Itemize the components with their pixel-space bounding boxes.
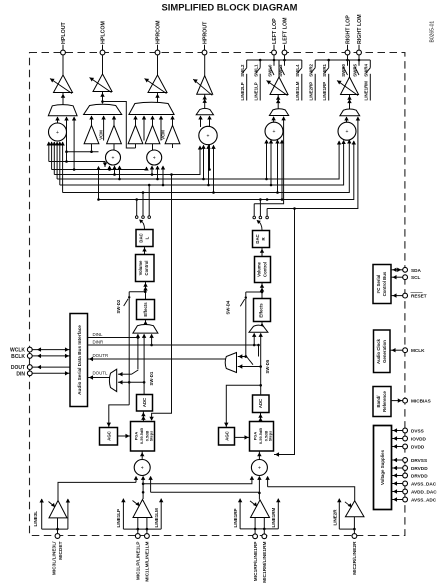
switch SWR5 <box>358 60 360 66</box>
svg-text:MIC2R/LINE2R: MIC2R/LINE2R <box>352 541 358 575</box>
svg-text:+: + <box>207 133 210 139</box>
summing node A (HPL) <box>49 123 67 141</box>
svg-text:PGA: PGA <box>252 432 257 441</box>
wire MIC3L input leads <box>42 528 68 530</box>
svg-text:SWR2: SWR2 <box>309 63 314 76</box>
wire MIC2R to mixer R <box>268 487 355 501</box>
pin MIC2R/LINE2R <box>352 534 357 539</box>
wire DVSS <box>392 430 403 432</box>
pin DVSS <box>403 428 408 433</box>
buffer VCM 5 <box>165 125 180 144</box>
svg-text:AVSS_DAC: AVSS_DAC <box>411 481 437 486</box>
svg-text:RIGHT LOM: RIGHT LOM <box>357 14 363 44</box>
svg-text:B0265-01: B0265-01 <box>430 21 436 43</box>
volume control R <box>255 257 271 283</box>
wire circle E inputs <box>266 140 268 179</box>
wire L amp to mixer R <box>143 482 252 483</box>
svg-text:Control: Control <box>144 261 149 276</box>
wire mixer R inputs <box>251 477 253 483</box>
AGC R <box>219 428 235 446</box>
svg-text:SWR5: SWR5 <box>352 63 357 76</box>
svg-text:DOUT: DOUT <box>11 365 25 371</box>
wire amp input from mux HPLOUT <box>62 93 64 107</box>
wire amp input from mux HPROUT <box>204 94 206 110</box>
wire SW-D4 to ADC mux feed <box>245 298 247 357</box>
svg-text:Effects: Effects <box>143 302 148 317</box>
svg-text:LEFT LOM: LEFT LOM <box>282 17 288 44</box>
pin AVSS_DAC <box>403 481 408 486</box>
svg-text:LINE1RP: LINE1RP <box>322 82 327 101</box>
wire bus line 1 <box>49 162 105 168</box>
pin MIC1LP/LINE1LP <box>135 534 140 539</box>
wire bus line 4 <box>57 141 339 179</box>
svg-text:SWL2: SWL2 <box>240 64 245 77</box>
wire effects input mux R to effects R <box>261 322 263 326</box>
audio clock generation block <box>374 330 391 373</box>
wire amp input from mux HPLCOM <box>102 92 104 104</box>
svg-text:0-59.5dB: 0-59.5dB <box>139 428 144 444</box>
wire R amp to mixer L <box>151 491 260 493</box>
svg-text:HPROUT: HPROUT <box>202 21 208 44</box>
effects L <box>137 300 155 320</box>
wire LEFT_LO amp output to bus <box>278 60 280 77</box>
svg-text:SWL4: SWL4 <box>295 64 300 77</box>
buffer VCM 2 <box>107 125 122 144</box>
wire mux DOUTR input 1 <box>238 356 247 358</box>
ADC R <box>253 395 270 413</box>
svg-text:SW-D1: SW-D1 <box>149 371 154 385</box>
svg-text:SWR4: SWR4 <box>364 63 369 76</box>
wire HPROUT terminal to amp <box>204 55 206 75</box>
svg-text:Effects: Effects <box>259 303 264 318</box>
input amp MIC2R/LINE2R <box>345 501 364 517</box>
svg-text:HPRCOM: HPRCOM <box>155 20 161 44</box>
svg-text:MICDET: MICDET <box>58 541 64 559</box>
wire WCLK <box>33 349 71 351</box>
input mixer node L <box>134 460 150 476</box>
input mixer node R <box>251 460 267 476</box>
svg-text:AGC: AGC <box>225 431 230 441</box>
svg-text:+: + <box>346 129 349 135</box>
pin DRVSS <box>403 458 408 463</box>
pin MCLK <box>403 348 408 353</box>
wire MIC1L input leads <box>123 528 161 530</box>
svg-text:AVSS_ADC: AVSS_ADC <box>411 497 437 502</box>
svg-text:LINE1RM: LINE1RM <box>364 81 369 101</box>
switch DAC R output select <box>253 216 256 219</box>
PGA R <box>250 422 274 452</box>
pin MICBIAS <box>403 398 408 403</box>
pin SDA <box>403 267 408 272</box>
svg-text:DAC: DAC <box>138 233 143 242</box>
wire bus line 5 <box>60 141 344 186</box>
svg-text:Volume: Volume <box>138 260 143 275</box>
svg-text:ADC: ADC <box>142 398 147 407</box>
wire mux L input DINR tap <box>151 334 153 345</box>
wire effects L to volume control L <box>145 282 147 300</box>
svg-text:MIC3L/LINE3L/: MIC3L/LINE3L/ <box>52 541 58 575</box>
wire HPRCOM terminal to amp <box>157 55 159 75</box>
svg-text:+: + <box>112 155 115 161</box>
svg-text:Volume: Volume <box>257 261 262 276</box>
wire mux DOUTR input 2 <box>238 366 261 368</box>
svg-text:SWL0: SWL0 <box>267 64 272 77</box>
svg-text:RIGHT LOP: RIGHT LOP <box>345 15 351 44</box>
svg-text:+: + <box>153 155 156 161</box>
pin DRVDD <box>403 466 408 471</box>
svg-text:LEFT LOP: LEFT LOP <box>272 18 278 44</box>
svg-text:MIC1RM/LINE1RM: MIC1RM/LINE1RM <box>262 542 268 583</box>
wire amp input from mux HPRCOM <box>157 93 159 106</box>
I2C serial control bus block <box>373 265 391 304</box>
wire RIGHT_LO amp output to bus <box>349 60 351 77</box>
summing node B (DAC L sum) <box>106 150 121 165</box>
wire DAC L routing contacts stems <box>136 200 138 216</box>
svg-text:DAC: DAC <box>255 234 260 243</box>
svg-text:SW-D2: SW-D2 <box>116 299 121 313</box>
wire RESET <box>391 295 403 297</box>
pin RESET <box>403 293 408 298</box>
wire input mixer L to PGA L <box>141 451 143 459</box>
wire PGA L to ADC L <box>142 411 144 421</box>
effects R <box>254 299 271 322</box>
wire DRVSS <box>392 459 403 461</box>
svg-text:MICBIAS: MICBIAS <box>411 399 431 404</box>
wire mux HPLOUT inputs <box>57 117 59 124</box>
svg-text:DRVDD: DRVDD <box>411 473 428 478</box>
wire SDA <box>391 269 403 271</box>
wire MICBIAS <box>391 400 403 402</box>
wire LEFT_LO output bus <box>247 59 302 61</box>
switch SWL2 / node LINE2LP <box>246 60 248 68</box>
wire AGC L input tap <box>109 405 129 427</box>
summing node E (LEFT_LO) <box>265 122 283 140</box>
pin MIC1RP/LINE1RP <box>253 534 258 539</box>
output mux HPROUT <box>196 108 213 114</box>
output driver amp HPLCOM <box>93 74 112 92</box>
wire IOVDD <box>392 438 403 440</box>
svg-text:LINE1LM: LINE1LM <box>295 81 300 100</box>
wire cross feed from bus x171 to PGA L <box>152 175 172 421</box>
svg-text:SCL: SCL <box>411 275 421 280</box>
wire SCL <box>391 276 403 278</box>
band reference block <box>373 387 391 417</box>
svg-text:LINE2R: LINE2R <box>333 509 338 526</box>
wire HPLCOM mux output hook <box>103 102 136 149</box>
wire mux RIGHT_LO inputs <box>346 117 348 122</box>
wire bypass from bus x294 <box>274 209 295 455</box>
wire effects input mux L to effects L <box>145 320 147 326</box>
wire RIGHT_LO amp input <box>349 95 351 111</box>
wire PGA R to ADC R <box>260 413 262 422</box>
svg-text:LINE2RP: LINE2RP <box>309 82 314 101</box>
wire VCM buffer stems right <box>135 144 137 148</box>
wire circle D inputs <box>203 145 205 179</box>
wire VCM return near node A <box>67 151 99 153</box>
switch SW-D4 <box>246 291 262 293</box>
svg-text:LINE3L: LINE3L <box>33 511 38 527</box>
chip boundary (dashed) <box>30 53 405 536</box>
switch SWR0 <box>347 60 349 66</box>
wire bus line 6 <box>63 140 350 193</box>
svg-text:MIC1LM/LINE1LM: MIC1LM/LINE1LM <box>145 542 151 582</box>
ADC L <box>137 395 153 412</box>
wire MIC1R input leads <box>240 528 278 530</box>
switch SWL3 <box>284 60 286 66</box>
svg-text:MCLK: MCLK <box>411 348 425 353</box>
svg-text:VCM: VCM <box>160 130 165 140</box>
svg-text:SWR0: SWR0 <box>341 63 346 76</box>
svg-text:BCLK: BCLK <box>11 354 25 360</box>
svg-text:Steps: Steps <box>148 431 153 442</box>
wire mux LEFT_LO inputs <box>273 117 275 123</box>
wire SW-D2 to ADC mux feed <box>128 297 130 405</box>
AGC L <box>100 428 118 446</box>
wire mux HPRCOM inputs <box>135 116 137 125</box>
wire DIN <box>33 372 71 374</box>
svg-text:+: + <box>273 129 276 135</box>
svg-text:LINE1LP: LINE1LP <box>116 509 121 528</box>
svg-text:DVDD: DVDD <box>411 444 425 449</box>
pin SCL <box>403 275 408 280</box>
PGA L <box>131 422 155 452</box>
pin MIC1LM/LINE1LM <box>145 534 150 539</box>
svg-text:Control: Control <box>263 262 268 277</box>
switch SWR1 / node LINE1RP <box>328 60 330 68</box>
svg-text:HPLCOM: HPLCOM <box>100 20 106 44</box>
switch DAC L output select <box>135 216 138 219</box>
svg-text:Reference: Reference <box>382 391 387 412</box>
wire DAC R routing contacts stems <box>253 204 255 216</box>
svg-text:DVSS: DVSS <box>411 428 424 433</box>
wire AGC R input tap <box>226 385 260 427</box>
summing node F (RIGHT_LO) <box>338 122 356 140</box>
switch SW-D1 <box>132 370 139 374</box>
svg-text:IOVDD: IOVDD <box>411 436 426 441</box>
svg-text:LINE1RP: LINE1RP <box>233 508 238 527</box>
svg-text:DRVDD: DRVDD <box>411 466 428 471</box>
wire AGC R to PGA R <box>235 436 250 438</box>
svg-text:VCM: VCM <box>98 130 103 140</box>
svg-text:SDA: SDA <box>411 268 422 273</box>
voltage supplies block <box>374 426 392 510</box>
audio serial data bus interface <box>70 314 88 407</box>
svg-text:SW-D5: SW-D5 <box>265 359 270 373</box>
wire ADC R output up <box>260 367 262 396</box>
output mux HPLCOM <box>84 104 122 114</box>
svg-text:DINR: DINR <box>93 340 104 345</box>
wire mux L input ADC L <box>143 334 145 338</box>
svg-text:DOUTL: DOUTL <box>93 371 108 376</box>
output mux LEFT_LO <box>269 109 288 116</box>
wire bus line 8 <box>267 117 358 209</box>
svg-text:Band/: Band/ <box>376 395 381 408</box>
pin MIC3L/LINE3L/MICDET <box>55 534 60 539</box>
input amp MIC3L/LINE3L <box>49 501 67 518</box>
pin IOVDD <box>403 436 408 441</box>
wire DOUT <box>33 366 71 368</box>
pin MIC1RM/LINE1RM <box>262 534 267 539</box>
svg-text:SIMPLIFIED BLOCK DIAGRAM: SIMPLIFIED BLOCK DIAGRAM <box>162 2 298 13</box>
summing node D (HPR) <box>199 126 217 144</box>
svg-text:LINE2LP: LINE2LP <box>240 82 245 100</box>
wire RIGHT_LO output bus <box>315 59 370 61</box>
wire mux HPROUT inputs <box>200 116 202 127</box>
wire bus line 2 <box>52 167 147 170</box>
svg-text:PGA: PGA <box>133 432 138 441</box>
pin DRVDD <box>403 473 408 478</box>
pin DVDD <box>403 444 408 449</box>
wire mux HPLCOM inputs <box>91 116 93 125</box>
wire LEFT_LO amp input <box>277 95 279 111</box>
svg-text:ADC: ADC <box>258 399 263 408</box>
svg-text:DINL: DINL <box>93 332 104 337</box>
wire DVDD <box>392 446 403 448</box>
svg-text:DOUTR: DOUTR <box>93 353 109 358</box>
buffer VCM 3 <box>128 125 143 144</box>
input amp MIC1LP/LM <box>133 500 152 518</box>
wire mux L input DINL <box>137 334 139 337</box>
ADC output mux R (DOUTR) <box>225 353 236 373</box>
switch SW-D5 <box>247 357 254 365</box>
wire circle B left deep input <box>98 167 100 200</box>
svg-text:MIC1RP/LINE1RP: MIC1RP/LINE1RP <box>253 541 259 582</box>
wire circle C inputs <box>151 166 153 175</box>
svg-text:MIC1LP/LINE1LP: MIC1LP/LINE1LP <box>136 541 142 580</box>
switch SWR2 / node LINE2RP <box>314 60 316 68</box>
svg-text:LINE1LM: LINE1LM <box>154 508 159 528</box>
wire VCM buffer stems <box>91 144 93 152</box>
wire HPLCOM terminal to amp <box>102 55 104 74</box>
svg-text:+: + <box>141 465 144 471</box>
svg-text:AGC: AGC <box>107 431 112 441</box>
output mux HPLOUT <box>48 105 77 116</box>
wire MIC3L to mixer L <box>58 482 136 500</box>
pin AVDD_DAC <box>403 489 408 494</box>
wire MCLK <box>390 349 403 351</box>
svg-text:Steps: Steps <box>267 431 272 442</box>
line output amp RIGHT_LO <box>341 77 359 95</box>
effects input mux R <box>249 325 268 332</box>
wire analog routing bus <box>48 142 50 162</box>
svg-text:L: L <box>144 236 149 239</box>
switch SW-D2 <box>129 291 145 293</box>
wire bus line 3 <box>54 146 200 175</box>
summing node C (DAC R sum) <box>147 150 162 165</box>
svg-text:DRVSS: DRVSS <box>411 458 427 463</box>
line output amp LEFT_LO <box>270 77 288 95</box>
wire DRVDD <box>392 475 403 477</box>
wire HPLOUT terminal to amp <box>62 55 64 75</box>
svg-text:SWR1: SWR1 <box>322 63 327 76</box>
svg-text:HPLOUT: HPLOUT <box>61 21 67 44</box>
DAC L <box>136 230 153 247</box>
svg-text:LINE1LP: LINE1LP <box>254 82 259 100</box>
DAC R <box>253 231 270 248</box>
svg-text:AVDD_DAC: AVDD_DAC <box>411 489 437 494</box>
output driver amp HPROUT <box>197 76 213 95</box>
wire input mixer R to PGA R <box>258 451 260 461</box>
wire mux DOUTL input 2 <box>118 381 144 383</box>
svg-text:SW-D4: SW-D4 <box>226 300 231 314</box>
wire AVDD_DAC <box>392 491 403 493</box>
output mux HPRCOM <box>129 102 174 114</box>
wire circle B inputs <box>109 166 111 170</box>
wire AGC L to PGA L <box>118 435 131 437</box>
svg-text:I²C Serial: I²C Serial <box>376 275 381 294</box>
wire BCLK <box>33 355 71 357</box>
svg-text:Audio Serial Data Bus Interfac: Audio Serial Data Bus Interface <box>77 325 82 395</box>
switch SWL1 / node LINE1LP <box>259 60 261 68</box>
svg-text:RESET: RESET <box>411 294 427 299</box>
wire volume control L to DAC L <box>144 247 146 255</box>
svg-text:Audio Clock: Audio Clock <box>376 338 381 364</box>
ADC output mux L (DOUTL) <box>109 369 116 391</box>
wire AVSS_DAC <box>392 483 403 485</box>
wire DRVDD <box>392 467 403 469</box>
output driver amp HPRCOM <box>148 75 167 93</box>
wire MIC2R input leads <box>339 528 354 530</box>
output driver amp HPLOUT <box>54 75 73 93</box>
switch SWL4 / node LINE1LM <box>301 60 303 68</box>
svg-text:LINE1RM: LINE1RM <box>271 507 276 527</box>
input amp MIC1RP/RM <box>251 500 270 518</box>
effects input mux L <box>133 325 158 334</box>
pin AVSS_ADC <box>403 497 408 502</box>
output mux RIGHT_LO <box>340 109 360 116</box>
svg-text:WCLK: WCLK <box>10 348 25 354</box>
wire bus line 7 <box>99 141 354 200</box>
buffer VCM 4 <box>145 125 160 144</box>
wire mixer L inputs <box>135 477 137 483</box>
svg-text:DIN: DIN <box>16 371 25 377</box>
svg-text:Generation: Generation <box>382 340 387 363</box>
svg-text:0-59.5dB: 0-59.5dB <box>258 428 263 444</box>
wire AVSS_ADC <box>392 499 403 501</box>
switch SWR4 / node LINE1RM <box>369 60 371 68</box>
svg-text:Control Bus: Control Bus <box>382 271 387 296</box>
switch SWL0 <box>273 60 275 66</box>
svg-text:+: + <box>258 465 261 471</box>
wire mux R input ADC R <box>260 333 262 366</box>
wire effects R to volume control R <box>261 283 263 299</box>
wire mux R input DINR <box>253 333 255 345</box>
svg-text:+: + <box>56 130 59 136</box>
buffer VCM 1 <box>84 125 99 144</box>
volume control L <box>136 255 155 282</box>
svg-text:SWL1: SWL1 <box>254 64 259 77</box>
wire volume control R to DAC R <box>261 248 263 257</box>
wire mux DOUTL input 1 <box>118 373 132 375</box>
wire ADC L output up <box>143 338 145 395</box>
svg-text:Voltage Supplies: Voltage Supplies <box>380 449 385 485</box>
